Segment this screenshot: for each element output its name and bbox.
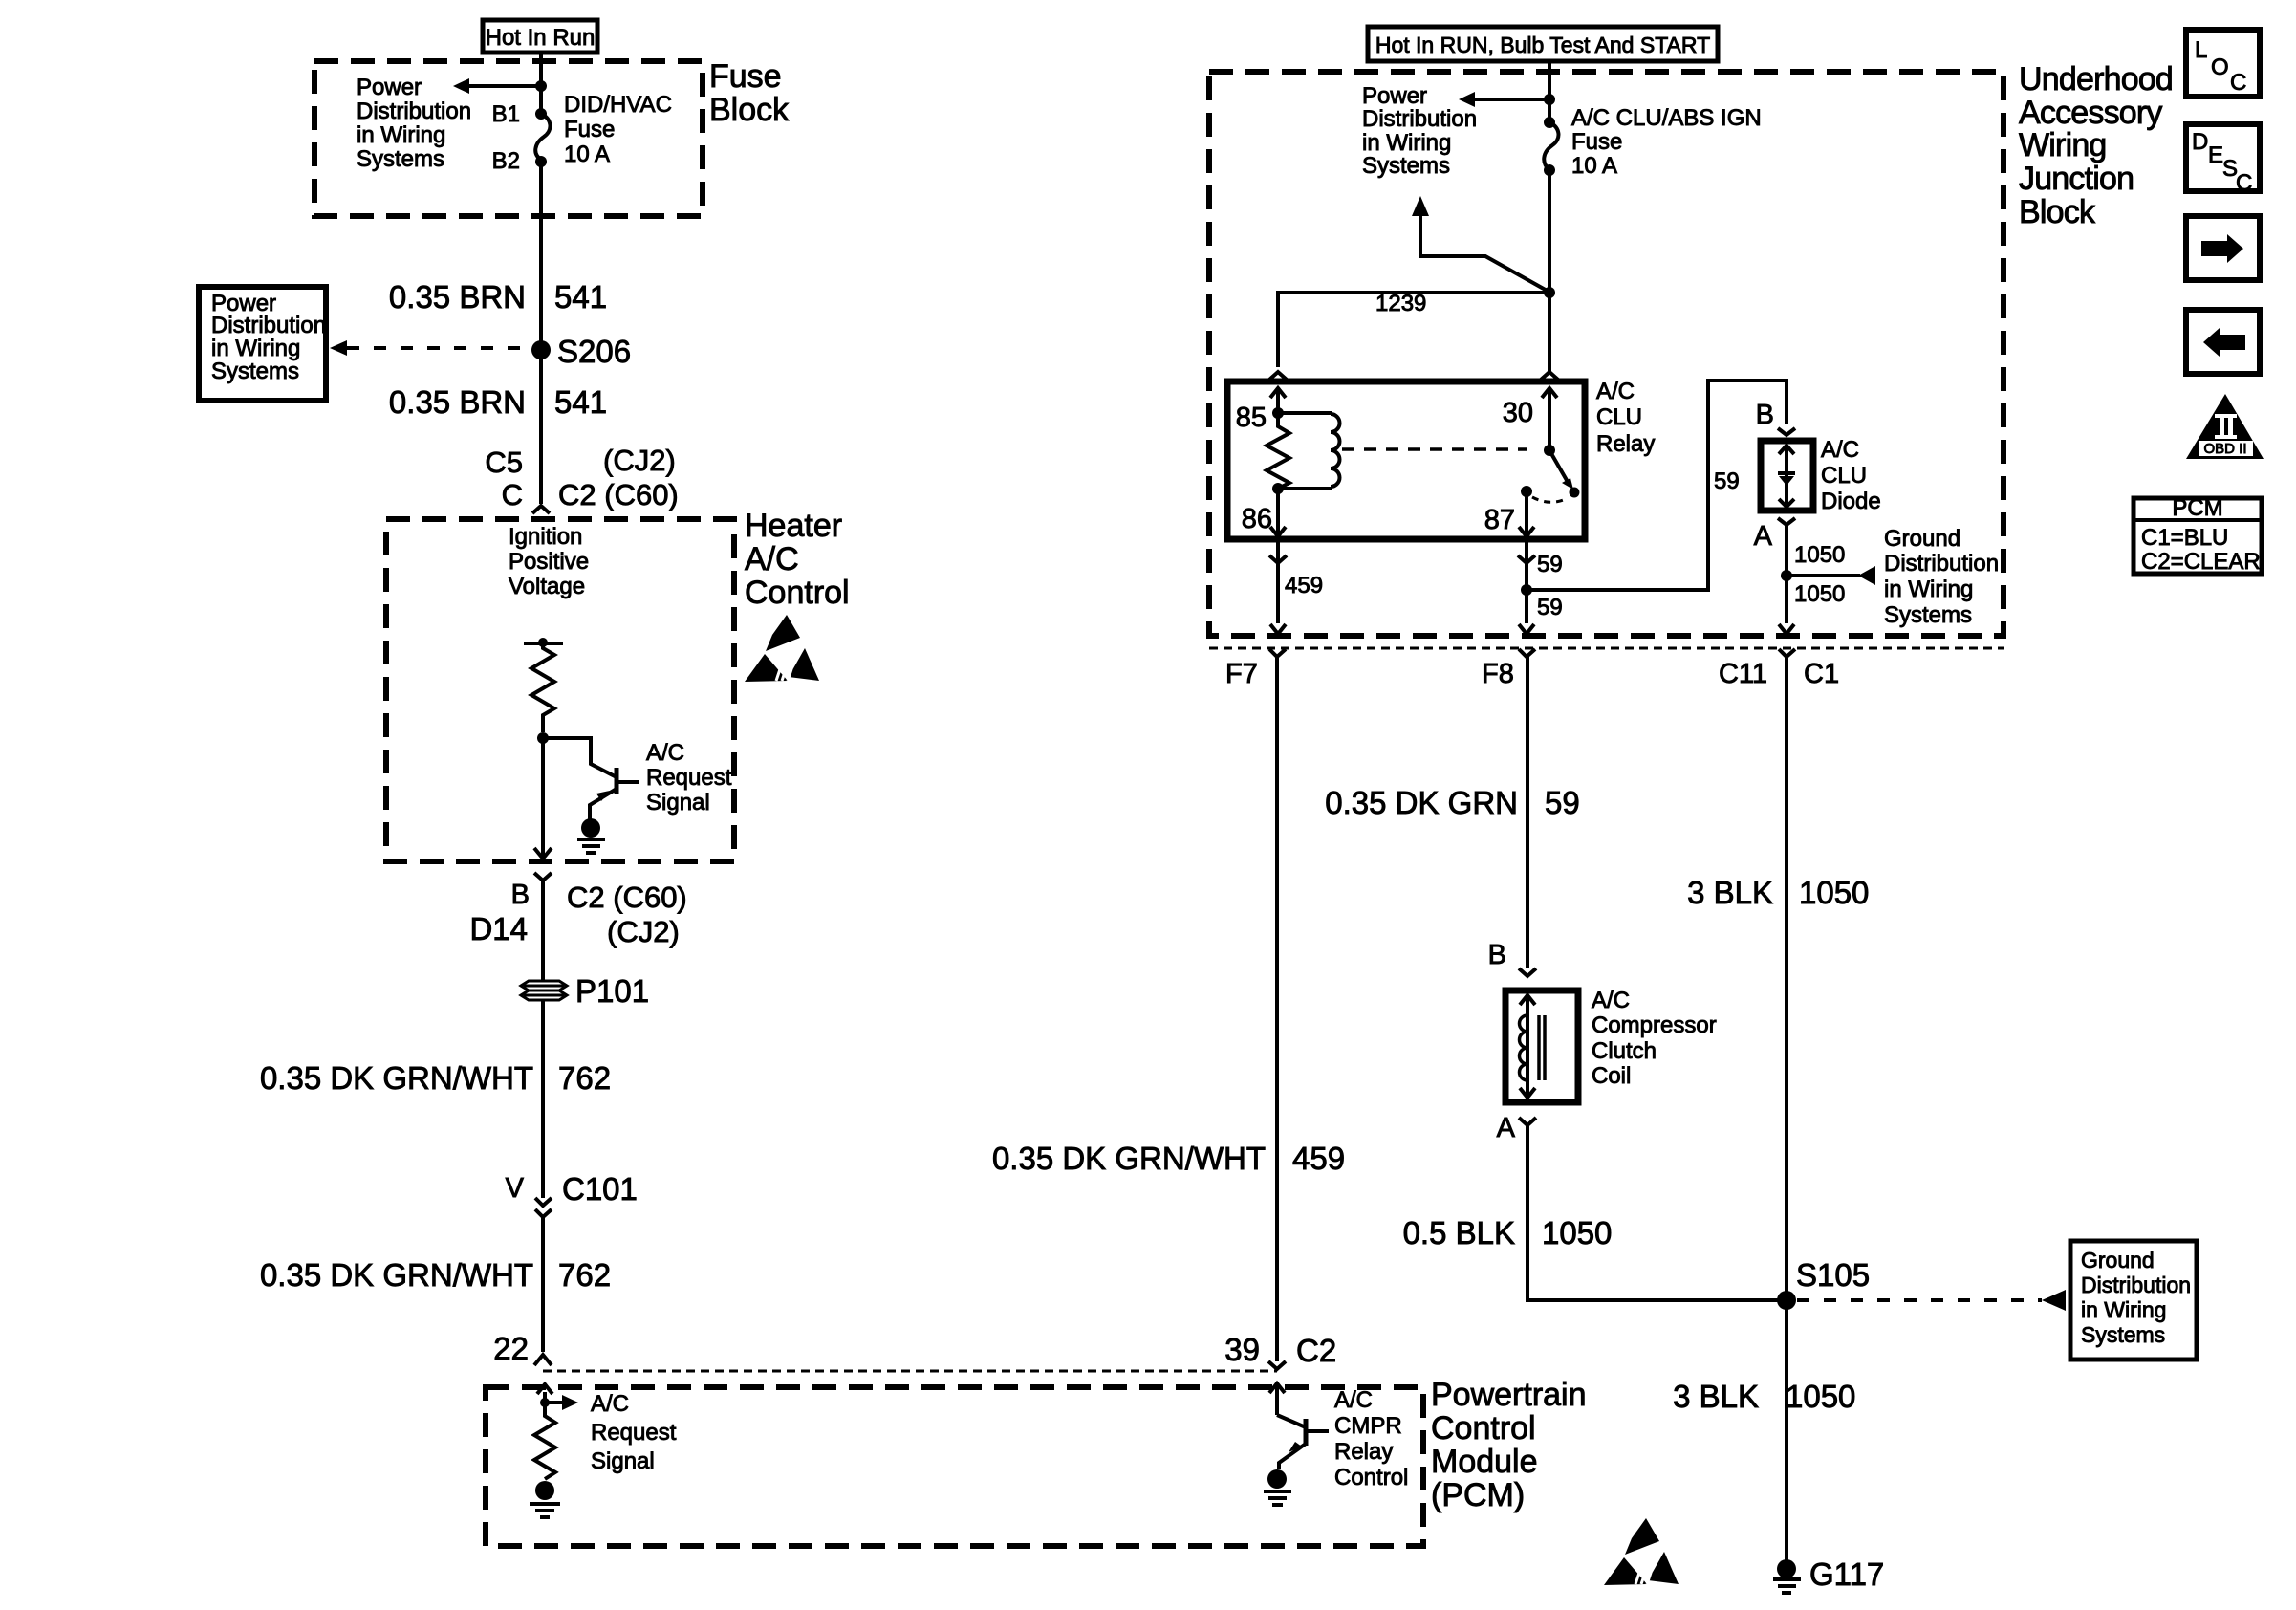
connector chevron below heater box <box>534 873 552 881</box>
wire label 0.5 BLK 1050 <box>1403 1215 1613 1251</box>
svg-text:Hot In RUN, Bulb Test And STAR: Hot In RUN, Bulb Test And START <box>1375 33 1710 57</box>
svg-text:F8: F8 <box>1482 659 1514 689</box>
svg-text:in Wiring: in Wiring <box>1884 577 1973 602</box>
svg-text:G117: G117 <box>1809 1556 1884 1592</box>
svg-text:Systems: Systems <box>2081 1322 2165 1347</box>
wire 59 loop from F8 junction to diode B <box>1527 381 1787 590</box>
left arrow icon box <box>2186 310 2260 374</box>
power distribution label (fuse block) <box>357 75 471 172</box>
resistor (PCM request) <box>534 1403 555 1479</box>
splice S105 <box>1777 1257 1870 1310</box>
svg-text:(PCM): (PCM) <box>1431 1477 1525 1513</box>
svg-text:Distribution: Distribution <box>2081 1273 2191 1297</box>
wire label 0.35 DK GRN/WHT 762 (lower) <box>260 1257 611 1293</box>
svg-text:Hot In Run: Hot In Run <box>486 25 596 51</box>
connector chevron at PCM pin 22 <box>534 1355 552 1365</box>
wire 459 from F7 to PCM pin 39 <box>1275 657 1279 1361</box>
A/C CMPR Relay Control label <box>1334 1387 1408 1490</box>
svg-text:85: 85 <box>1236 402 1267 433</box>
connector chevron diode B <box>1778 428 1795 435</box>
svg-text:Distribution: Distribution <box>357 98 471 124</box>
svg-text:Fuse: Fuse <box>1571 129 1622 155</box>
svg-text:C2 (C60): C2 (C60) <box>567 881 687 914</box>
svg-text:1239: 1239 <box>1375 291 1426 316</box>
wire from Hot In Run to fuse B1 <box>539 53 543 114</box>
wire label 3 BLK 1050 (lower) <box>1673 1379 1855 1414</box>
svg-text:Systems: Systems <box>211 359 299 384</box>
transistor Q2 A/C CMPR relay control <box>1277 1415 1329 1469</box>
svg-text:Positive: Positive <box>509 549 589 575</box>
wire from Hot In RUN box to fuse <box>1548 61 1551 122</box>
svg-text:C2 (C60): C2 (C60) <box>558 478 679 511</box>
svg-text:A/C: A/C <box>1596 379 1635 404</box>
svg-text:Distribution: Distribution <box>1884 551 1999 577</box>
svg-text:CLU: CLU <box>1596 404 1642 430</box>
fuse A/C CLU/ABS IGN <box>1544 117 1558 176</box>
connector B / D14 labels <box>469 880 686 948</box>
svg-text:Fuse: Fuse <box>709 58 782 95</box>
svg-text:A/C: A/C <box>646 740 684 766</box>
svg-text:59: 59 <box>1714 468 1740 494</box>
connector C5 / C2(C60) labels <box>485 444 678 511</box>
svg-text:Wiring: Wiring <box>2019 127 2107 163</box>
power distribution arrow (fuse block) <box>453 78 547 94</box>
svg-text:30: 30 <box>1503 398 1533 428</box>
Ground Distribution box (right) <box>2070 1241 2197 1360</box>
A/C CLU Relay label <box>1596 379 1655 457</box>
wire label 0.35 DK GRN/WHT 459 <box>992 1141 1345 1176</box>
svg-text:3 BLK: 3 BLK <box>1687 875 1773 910</box>
Heater A/C Control title <box>745 508 850 611</box>
svg-text:Signal: Signal <box>646 790 710 816</box>
A/C request signal arrow right <box>545 1395 578 1410</box>
svg-text:S206: S206 <box>557 334 631 369</box>
svg-text:L: L <box>2195 37 2207 63</box>
PCM input arrow (pin 39) <box>1269 1383 1285 1415</box>
svg-text:C1=BLU: C1=BLU <box>2141 525 2228 551</box>
ESD symbol (heater) <box>745 615 819 682</box>
svg-text:D14: D14 <box>469 911 528 946</box>
svg-text:C: C <box>2236 170 2252 196</box>
svg-text:B1: B1 <box>492 101 520 127</box>
relay control dashed line <box>1342 447 1527 451</box>
relay pin 86 exit arrow <box>1270 489 1286 536</box>
relay pin 87 wire to junction <box>1525 536 1528 623</box>
svg-text:B: B <box>1488 940 1506 970</box>
svg-text:A/C: A/C <box>1334 1387 1373 1413</box>
svg-text:Ground: Ground <box>1884 526 1960 552</box>
Powertrain Control Module title <box>1431 1377 1587 1513</box>
svg-text:Coil: Coil <box>1592 1063 1631 1089</box>
svg-text:Request: Request <box>591 1420 677 1446</box>
svg-text:0.35 BRN: 0.35 BRN <box>389 279 526 315</box>
svg-text:A/C CLU/ABS IGN: A/C CLU/ABS IGN <box>1571 105 1762 131</box>
connector chevron relay pin 85 <box>1269 372 1287 380</box>
svg-text:F7: F7 <box>1225 659 1258 689</box>
ground G117 <box>1773 1556 1884 1593</box>
svg-text:1050: 1050 <box>1794 581 1845 607</box>
svg-text:0.35 DK GRN/WHT: 0.35 DK GRN/WHT <box>260 1060 533 1096</box>
svg-text:22: 22 <box>493 1331 529 1366</box>
svg-text:C2=CLEAR: C2=CLEAR <box>2141 549 2261 575</box>
relay resistor <box>1267 413 1289 489</box>
Heater A/C Control dashed box <box>386 519 734 861</box>
wire 541 from fuse to C5 connector <box>539 162 543 504</box>
svg-text:E: E <box>2208 142 2223 168</box>
svg-text:C101: C101 <box>562 1171 638 1207</box>
big box connector thin dashed line <box>1209 647 2004 650</box>
svg-text:0.35 DK GRN/WHT: 0.35 DK GRN/WHT <box>992 1141 1266 1176</box>
relay switch blade <box>1544 445 1580 498</box>
svg-text:Systems: Systems <box>1884 602 1972 628</box>
wire fuse to 1239 junction <box>1548 170 1551 372</box>
svg-text:Relay: Relay <box>1334 1439 1393 1465</box>
Underhood Accessory title <box>2019 61 2173 230</box>
svg-text:in Wiring: in Wiring <box>1362 130 1451 156</box>
relay switch throw dashed arc <box>1532 497 1568 502</box>
LOC icon box <box>2186 30 2260 97</box>
right arrow icon box <box>2186 216 2260 280</box>
svg-text:CLU: CLU <box>1821 463 1867 489</box>
svg-text:in Wiring: in Wiring <box>211 336 300 361</box>
svg-text:Signal: Signal <box>591 1448 655 1474</box>
svg-text:Power: Power <box>357 75 422 100</box>
svg-text:1050: 1050 <box>1794 542 1845 568</box>
junction to ground distribution <box>1781 570 1792 581</box>
resistor (heater A/C control) <box>531 643 554 732</box>
diode internal arrows and symbol <box>1778 446 1795 507</box>
svg-text:87: 87 <box>1484 505 1515 535</box>
Hot In RUN Bulb Test And START box <box>1368 27 1718 61</box>
wire 1050 from S105 to G117 <box>1785 1300 1788 1560</box>
svg-text:Distribution: Distribution <box>1362 106 1477 132</box>
svg-text:86: 86 <box>1242 504 1272 534</box>
svg-text:Ground: Ground <box>2081 1248 2155 1273</box>
svg-text:A/C: A/C <box>1592 988 1630 1013</box>
DESC icon box <box>2186 124 2260 196</box>
svg-text:DID/HVAC: DID/HVAC <box>564 92 672 118</box>
relay coil <box>1278 413 1340 489</box>
svg-text:B2: B2 <box>492 148 520 174</box>
Ignition Positive Voltage label <box>509 524 589 599</box>
svg-text:Accessory: Accessory <box>2019 95 2162 131</box>
svg-text:A: A <box>1754 521 1773 552</box>
svg-text:0.35 DK GRN/WHT: 0.35 DK GRN/WHT <box>260 1257 533 1293</box>
A/C Request Signal label (PCM) <box>591 1391 677 1474</box>
internal ground (PCM right) <box>1264 1469 1291 1505</box>
Underhood Accessory Wiring Junction Block dashed box <box>1209 72 2004 636</box>
connector chevron compressor A <box>1519 1118 1536 1125</box>
svg-text:0.35 BRN: 0.35 BRN <box>389 384 526 420</box>
svg-text:Control: Control <box>1431 1410 1536 1447</box>
svg-text:Distribution: Distribution <box>211 313 326 338</box>
svg-text:Powertrain: Powertrain <box>1431 1377 1587 1413</box>
svg-text:B: B <box>1756 400 1774 430</box>
Fuse Block dashed box <box>314 61 703 216</box>
svg-text:Diode: Diode <box>1821 489 1881 514</box>
wire label 0.35 DK GRN/WHT 762 (upper) <box>260 1060 611 1096</box>
PCM legend box <box>2134 495 2262 575</box>
svg-text:A/C: A/C <box>745 541 799 577</box>
connector chevron below relay (87) <box>1518 555 1535 563</box>
power distribution label (underhood) <box>1362 83 1477 179</box>
svg-text:Request: Request <box>646 765 732 791</box>
svg-text:OBD II: OBD II <box>2203 441 2246 457</box>
svg-text:C2: C2 <box>1296 1333 1336 1368</box>
grommet P101 <box>521 973 649 1009</box>
svg-text:S105: S105 <box>1796 1257 1870 1293</box>
internal ground (heater) <box>577 818 605 853</box>
PCM connector thin dashed line <box>543 1370 1277 1373</box>
Ground Distribution label (underhood) <box>1884 526 1999 628</box>
node 59 junction <box>1521 584 1532 596</box>
svg-text:Relay: Relay <box>1596 431 1655 457</box>
svg-text:Control: Control <box>1334 1465 1408 1490</box>
fuse value label DID/HVAC Fuse 10 A <box>564 92 672 167</box>
power distribution arrow (underhood top) <box>1459 92 1555 107</box>
transistor Q1 A/C request <box>543 738 639 819</box>
compressor coil internals <box>1520 995 1546 1098</box>
wire label 0.35 BRN 541 (lower) <box>389 384 607 420</box>
svg-text:Junction: Junction <box>2019 161 2134 197</box>
svg-text:(CJ2): (CJ2) <box>607 915 680 948</box>
svg-text:Block: Block <box>2019 194 2096 230</box>
svg-text:1050: 1050 <box>1799 875 1869 910</box>
connector C101 <box>506 1171 638 1217</box>
svg-text:Systems: Systems <box>357 146 444 172</box>
splice S206 <box>531 334 631 369</box>
relay coil node top <box>1272 407 1284 419</box>
wire 762 from C101 to PCM <box>541 1217 545 1352</box>
svg-text:Ignition: Ignition <box>509 524 582 550</box>
svg-text:C5: C5 <box>485 446 523 479</box>
fuse DID/HVAC F1 <box>535 108 550 167</box>
wire diode A to box exit <box>1785 525 1788 623</box>
svg-text:CMPR: CMPR <box>1334 1413 1402 1439</box>
svg-text:Control: Control <box>745 575 850 611</box>
relay pin 87 contact <box>1521 486 1532 497</box>
PCM dashed box <box>486 1387 1423 1546</box>
svg-text:A/C: A/C <box>591 1391 629 1417</box>
wire 59 from F8 to compressor B <box>1526 657 1529 968</box>
svg-text:P101: P101 <box>575 973 649 1009</box>
dashed wire S206 to power distribution <box>330 340 533 356</box>
connector chevron diode A <box>1778 518 1795 525</box>
svg-text:3 BLK: 3 BLK <box>1673 1379 1759 1414</box>
svg-text:39: 39 <box>1224 1332 1260 1367</box>
connector chevron F7 <box>1269 649 1286 657</box>
junction node <box>537 732 549 744</box>
Fuse Block title <box>709 58 790 128</box>
svg-text:Block: Block <box>709 92 790 128</box>
svg-text:459: 459 <box>1285 573 1323 598</box>
node 1239 junction <box>1544 287 1555 298</box>
svg-text:A: A <box>1497 1113 1516 1143</box>
svg-text:1050: 1050 <box>1542 1215 1612 1251</box>
wire to box exit with arrow <box>534 738 552 859</box>
svg-text:10 A: 10 A <box>1571 153 1617 179</box>
svg-text:in Wiring: in Wiring <box>357 122 445 148</box>
power distribution up arrow branch <box>1412 196 1550 293</box>
svg-text:A/C: A/C <box>1821 437 1859 463</box>
svg-text:in Wiring: in Wiring <box>2081 1297 2166 1322</box>
svg-text:C11: C11 <box>1719 659 1767 689</box>
internal ground (PCM left) <box>530 1481 560 1517</box>
svg-text:Systems: Systems <box>1362 153 1450 179</box>
svg-text:(CJ2): (CJ2) <box>603 444 676 477</box>
svg-text:541: 541 <box>554 384 607 420</box>
exit arrow C1 at box bottom <box>1779 624 1794 634</box>
wire 1239 horizontal <box>1278 293 1549 367</box>
svg-text:10 A: 10 A <box>564 141 610 167</box>
svg-text:V: V <box>506 1173 525 1204</box>
exit arrow F7 at box bottom <box>1270 624 1286 634</box>
A/C Request Signal label <box>646 740 732 816</box>
ground distribution arrow (underhood) <box>1787 566 1875 585</box>
ESD symbol (PCM) <box>1604 1518 1679 1585</box>
svg-text:762: 762 <box>558 1060 611 1096</box>
svg-text:C1: C1 <box>1804 659 1839 689</box>
connector chevron at heater box top <box>532 506 550 513</box>
svg-text:Module: Module <box>1431 1444 1538 1480</box>
connector chevron relay pin 30 <box>1541 372 1558 380</box>
relay pin 85 entry arrow <box>1270 388 1286 413</box>
svg-text:Heater: Heater <box>745 508 842 544</box>
A/C CLU Relay box <box>1227 381 1585 539</box>
wire label 0.35 DK GRN 59 <box>1325 785 1579 820</box>
svg-text:O: O <box>2211 54 2229 80</box>
relay pin 86 exit wire to box bottom <box>1276 536 1280 623</box>
connector chevron F8 <box>1519 649 1535 657</box>
Hot In Run box <box>483 20 597 53</box>
connector chevron below relay (86) <box>1269 555 1287 563</box>
svg-text:459: 459 <box>1292 1141 1345 1176</box>
svg-text:Compressor: Compressor <box>1592 1012 1717 1038</box>
svg-text:0.35 DK GRN: 0.35 DK GRN <box>1325 785 1518 820</box>
svg-text:59: 59 <box>1537 595 1563 620</box>
connector chevron C1 <box>1779 649 1795 657</box>
A/C CLU Diode box <box>1761 441 1813 511</box>
svg-text:PCM: PCM <box>2172 495 2222 521</box>
svg-text:Fuse: Fuse <box>564 117 615 142</box>
svg-text:Clutch: Clutch <box>1592 1038 1657 1064</box>
svg-text:C: C <box>2230 70 2246 96</box>
svg-text:Underhood: Underhood <box>2019 61 2173 98</box>
exit arrow F8 at box bottom <box>1519 624 1534 634</box>
svg-text:C: C <box>502 478 523 511</box>
wire 1050 from compressor A to S105 <box>1527 1125 1787 1300</box>
relay pin 87 exit arrow <box>1519 491 1534 536</box>
A/C Compressor Clutch Coil label <box>1592 988 1717 1089</box>
svg-text:B: B <box>511 880 530 910</box>
wire 762 from D14 to P101 <box>541 881 545 981</box>
A/C Compressor Clutch Coil box <box>1505 990 1578 1102</box>
wire label 3 BLK 1050 (upper) <box>1687 875 1869 910</box>
dashed wire S105 to ground distribution box <box>1797 1290 2066 1311</box>
fuse value label A/C CLU/ABS IGN Fuse 10 A <box>1571 105 1762 179</box>
svg-text:Power: Power <box>1362 83 1427 109</box>
wire 762 from P101 to C101 <box>541 1000 545 1198</box>
wire label 0.35 BRN 541 (upper) <box>389 279 607 315</box>
svg-text:0.5 BLK: 0.5 BLK <box>1403 1215 1515 1251</box>
svg-text:1050: 1050 <box>1786 1379 1855 1414</box>
power distribution box (left) <box>199 287 326 401</box>
connector chevron at PCM pin 39 <box>1268 1361 1286 1369</box>
connector chevron compressor B <box>1519 968 1536 976</box>
relay pin 30 entry arrow <box>1542 388 1557 450</box>
svg-text:Voltage: Voltage <box>509 574 585 599</box>
svg-text:D: D <box>2192 129 2208 155</box>
wire 1050 from C1 down to S105 <box>1785 657 1788 1300</box>
A/C CLU Diode label <box>1821 437 1881 514</box>
svg-text:762: 762 <box>558 1257 611 1293</box>
internal supply bar <box>524 638 563 647</box>
svg-text:59: 59 <box>1537 552 1563 577</box>
OBD II triangle icon <box>2186 394 2264 459</box>
PCM input arrow (pin 22) <box>537 1384 552 1407</box>
svg-text:541: 541 <box>554 279 607 315</box>
svg-text:59: 59 <box>1545 785 1580 820</box>
relay coil node bottom <box>1272 483 1284 494</box>
